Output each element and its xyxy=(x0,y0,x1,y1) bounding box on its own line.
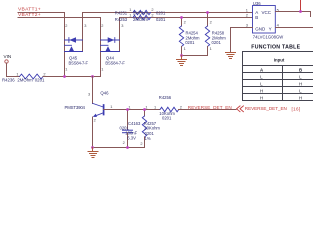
svg-text:0201: 0201 xyxy=(212,40,222,45)
resistor R4236 zigzag xyxy=(20,74,44,79)
svg-text:FUNCTION TABLE: FUNCTION TABLE xyxy=(251,45,300,51)
svg-text:VCC: VCC xyxy=(262,10,272,15)
svg-text:1: 1 xyxy=(110,104,112,109)
node dot C4163 ground junction xyxy=(126,146,129,149)
svg-text:GND: GND xyxy=(255,26,266,31)
svg-text:Q46: Q46 xyxy=(100,91,109,96)
svg-text:A: A xyxy=(260,67,263,72)
wire VIN down xyxy=(6,63,8,76)
wire VBATT2+ to Q44 xyxy=(18,17,101,19)
svg-text:2: 2 xyxy=(180,105,182,110)
wire Q45 right leg up to sense line 1 xyxy=(82,13,84,52)
svg-text:2: 2 xyxy=(140,141,142,146)
function table text xyxy=(260,57,302,100)
svg-text:3: 3 xyxy=(84,23,86,28)
svg-text:R4251: R4251 xyxy=(115,10,128,15)
wire Q44 left leg down to drain bus xyxy=(100,18,102,77)
svg-text:2: 2 xyxy=(65,23,67,28)
svg-text:2: 2 xyxy=(210,19,212,24)
transistor Q44 BSS84 xyxy=(101,37,120,51)
wire Q44 right leg up to sense line 2 xyxy=(119,18,121,52)
svg-text:6.3V: 6.3V xyxy=(127,135,136,140)
wire drain bus xyxy=(65,76,101,78)
svg-text:2MOhm: 2MOhm xyxy=(133,17,148,22)
wire Q45 left leg down to drain bus xyxy=(64,13,66,77)
svg-text:[16]: [16] xyxy=(292,106,301,111)
svg-text:0201: 0201 xyxy=(162,116,172,121)
wire Q46 emitter down xyxy=(92,117,94,148)
svg-text:2: 2 xyxy=(123,140,125,145)
svg-text:1: 1 xyxy=(154,105,156,110)
wire sense line 2 from Q44 to U36 pin 2 xyxy=(120,17,253,19)
wire U36 pin4 Y output xyxy=(275,27,313,29)
svg-text:3: 3 xyxy=(121,23,123,28)
svg-text:1: 1 xyxy=(129,13,131,18)
svg-text:REVERSE_DET_EN: REVERSE_DET_EN xyxy=(245,106,287,111)
resistor R4258 pulldown xyxy=(207,13,209,27)
svg-text:1: 1 xyxy=(16,71,18,76)
svg-text:0201: 0201 xyxy=(156,11,166,16)
capacitor C4163 xyxy=(127,110,129,130)
node dot R4258 tap on sense line 1 xyxy=(206,11,209,14)
svg-text:R4236: R4236 xyxy=(2,77,15,82)
svg-text:H: H xyxy=(299,81,302,86)
svg-text:74LVC1G08GW: 74LVC1G08GW xyxy=(253,34,283,39)
ground under Q46 emitter xyxy=(88,148,98,158)
wire Q46 collector xyxy=(92,77,94,104)
svg-text:0201: 0201 xyxy=(35,77,45,82)
svg-text:1: 1 xyxy=(65,66,67,71)
svg-text:C4163: C4163 xyxy=(128,121,141,126)
svg-text:H: H xyxy=(260,88,263,93)
ground under pulldowns xyxy=(176,56,186,66)
node dot pulldown ground junction xyxy=(180,54,183,57)
wire U36 pin5 VCC xyxy=(275,12,310,17)
wire pulldown ground bus xyxy=(182,55,208,57)
resistor R4257 xyxy=(144,110,146,117)
svg-text:1: 1 xyxy=(129,7,131,12)
svg-text:1: 1 xyxy=(184,46,186,51)
svg-text:20Kohm: 20Kohm xyxy=(144,126,160,131)
wire R4236 to node xyxy=(43,76,65,78)
svg-text:1: 1 xyxy=(210,46,212,51)
svg-text:BSS84-7-F: BSS84-7-F xyxy=(105,61,125,66)
svg-text:B: B xyxy=(299,67,302,72)
node dot R4254 tap on sense line 2 xyxy=(180,16,183,19)
node dot Q46 collector tap xyxy=(91,75,94,78)
svg-text:3: 3 xyxy=(88,91,90,96)
svg-text:VBATT1+: VBATT1+ xyxy=(18,7,41,13)
node dot VCC junction xyxy=(299,10,302,13)
svg-text:REVERSE_DET_EN: REVERSE_DET_EN xyxy=(188,105,232,110)
svg-text:Y: Y xyxy=(269,26,272,31)
wire emitter ground bus xyxy=(93,147,145,149)
svg-text:0201: 0201 xyxy=(156,17,166,22)
svg-text:2: 2 xyxy=(43,71,45,76)
node dot base to C4163 xyxy=(126,108,129,111)
svg-text:1: 1 xyxy=(101,66,103,71)
resistor R4251 zigzag on sense line 1 xyxy=(133,10,150,14)
svg-text:2: 2 xyxy=(151,13,153,18)
wire VCC supply drop from top xyxy=(300,0,302,12)
svg-text:BSS84-7-F: BSS84-7-F xyxy=(69,61,89,66)
function table grid xyxy=(243,52,320,101)
off-page connector chevrons xyxy=(237,106,244,112)
svg-text:2: 2 xyxy=(101,23,103,28)
node dot base to R4257 xyxy=(143,108,146,111)
svg-text:B: B xyxy=(255,15,258,20)
svg-text:2MOhm: 2MOhm xyxy=(17,77,33,82)
transistor Q45 BSS84 xyxy=(65,37,83,51)
svg-text:2: 2 xyxy=(151,7,153,12)
svg-text:H: H xyxy=(299,95,302,100)
svg-text:Input: Input xyxy=(274,57,285,62)
svg-text:1%: 1% xyxy=(145,136,151,141)
resistor R4253 zigzag on sense line 2 xyxy=(133,15,150,19)
wire Q46 base xyxy=(104,109,160,111)
svg-text:3: 3 xyxy=(246,22,248,27)
wire R4256 to off-page connector xyxy=(179,109,236,111)
ground under U36 xyxy=(225,53,235,59)
wire sense line 1 from Q45 to U36 pin 1 xyxy=(83,12,253,14)
svg-text:PMST3904: PMST3904 xyxy=(65,105,86,110)
svg-text:2: 2 xyxy=(246,12,248,17)
node dot VIN drain junction xyxy=(63,75,66,78)
svg-text:R4256: R4256 xyxy=(159,95,172,100)
svg-text:0201: 0201 xyxy=(185,40,195,45)
wire VIN to R4236 xyxy=(7,76,20,78)
resistor R4254 pulldown xyxy=(181,18,183,27)
svg-text:H: H xyxy=(260,95,263,100)
svg-text:R4253: R4253 xyxy=(115,17,128,22)
wire VBATT1+ to Q45 xyxy=(18,12,65,14)
svg-text:2: 2 xyxy=(184,19,186,24)
svg-text:VIN: VIN xyxy=(4,54,12,59)
wire U36 pin3 GND xyxy=(231,28,253,53)
svg-text:2: 2 xyxy=(94,117,96,122)
node dot emitter ground junction xyxy=(91,146,94,149)
